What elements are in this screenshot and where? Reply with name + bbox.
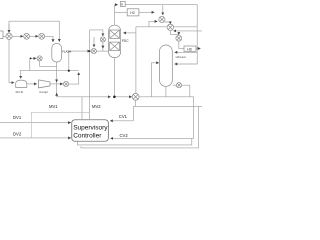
svg-text:R: R <box>121 3 123 7</box>
svg-text:MV2: MV2 <box>92 104 101 109</box>
svg-text:PDC: PDC <box>122 39 129 43</box>
svg-text:CV2: CV2 <box>120 133 129 138</box>
svg-text:DV2: DV2 <box>13 132 22 137</box>
svg-text:MV1: MV1 <box>49 104 58 109</box>
svg-text:DV1: DV1 <box>13 115 22 120</box>
svg-text:KO-D: KO-D <box>16 90 23 94</box>
svg-text:Controller: Controller <box>73 133 102 140</box>
svg-text:CV1: CV1 <box>119 114 128 119</box>
svg-text:Supervisory: Supervisory <box>73 124 108 131</box>
svg-text:HCl-sol: HCl-sol <box>176 55 186 59</box>
svg-text:FLASH: FLASH <box>62 50 71 54</box>
svg-text:H2: H2 <box>130 11 135 15</box>
svg-text:Compr: Compr <box>39 90 48 94</box>
svg-text:HD: HD <box>187 47 192 51</box>
